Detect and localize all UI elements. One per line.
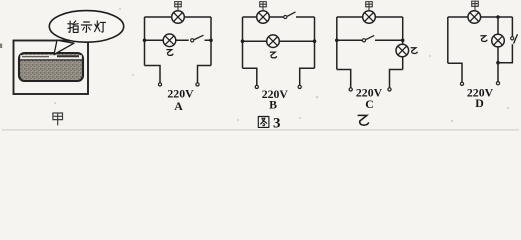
lamp 乙 (C) <box>396 44 409 57</box>
terminal D left <box>460 82 463 85</box>
bubble tail <box>54 40 74 54</box>
wire C plug lead left <box>337 70 351 88</box>
lamp 乙 (A) <box>163 34 176 47</box>
scan artifact bottom line <box>2 129 519 130</box>
svg-text:B: B <box>269 98 277 112</box>
wire D switch branch upper <box>511 17 513 36</box>
scan speckles <box>54 8 509 122</box>
wire B right vertical <box>314 17 316 68</box>
junction dot D top <box>496 15 500 19</box>
junction dot A left <box>143 39 147 43</box>
terminal B right <box>298 85 301 88</box>
label 甲 (B) <box>260 2 267 11</box>
wire A right vertical <box>210 17 212 66</box>
wire D plug lead left <box>448 63 462 82</box>
junction dot C right <box>401 39 405 43</box>
svg-text:C: C <box>365 97 374 111</box>
vent dash left <box>22 56 49 58</box>
text 示 <box>81 22 91 32</box>
label 乙 (B) <box>270 52 276 58</box>
junction dot D bottom <box>496 61 500 65</box>
label 甲 (D) <box>472 1 479 10</box>
label 乙 (C) <box>411 48 417 54</box>
lamp 甲 (A) <box>172 11 185 24</box>
wire C middle branch <box>337 39 403 41</box>
wire D lamp branch <box>497 17 499 63</box>
wire D plug lead right <box>497 63 499 82</box>
indicator light mark <box>57 55 79 57</box>
wire A left vertical <box>144 17 146 66</box>
wire A middle branch <box>145 39 212 41</box>
wire A plug lead left <box>145 66 161 83</box>
wire D left vertical <box>447 17 449 63</box>
switch S (D) <box>511 37 514 40</box>
lid band <box>20 55 82 59</box>
switch S (C) <box>362 39 365 42</box>
svg-text:D: D <box>475 96 484 110</box>
switch S (A) <box>191 39 194 42</box>
terminal C left <box>349 88 352 91</box>
label 乙 (A) <box>167 50 173 56</box>
caption 图 <box>258 117 269 128</box>
junction dot B right <box>313 39 317 43</box>
caption 乙 (bottom) <box>358 115 368 125</box>
lamp 乙 (D) <box>492 34 505 47</box>
wire C left vertical <box>336 17 338 70</box>
wire C plug lead right <box>390 70 403 88</box>
speech bubble <box>49 11 123 43</box>
wire A plug lead right <box>198 66 212 83</box>
label 甲 (A) <box>175 2 182 11</box>
svg-text:A: A <box>174 99 183 113</box>
wire B top <box>243 16 315 18</box>
wire B left vertical <box>242 17 244 68</box>
switch S (B) <box>284 15 287 18</box>
appliance case (device 甲) <box>14 41 89 95</box>
terminal C right <box>388 88 391 91</box>
terminal D right <box>496 82 499 85</box>
terminal A right <box>196 83 199 86</box>
wire C right vertical upper <box>402 17 404 44</box>
terminal A left <box>158 83 161 86</box>
label 甲 (C) <box>366 2 373 11</box>
wire B plug lead right <box>300 68 315 85</box>
lamp 甲 (C) <box>363 11 376 24</box>
lamp 甲 (D) <box>468 11 481 24</box>
wire C top <box>337 16 403 18</box>
junction dot B left <box>241 39 245 43</box>
wire D top <box>448 16 513 18</box>
label 乙 (D) <box>481 36 487 42</box>
lid seam line <box>20 59 82 61</box>
text 指 <box>68 21 79 33</box>
wire C right vertical lower <box>402 57 404 70</box>
lamp 乙 (B) <box>267 35 280 48</box>
heater bar body <box>19 53 83 81</box>
scan artifact left edge mark <box>0 44 2 49</box>
label 甲 (device) <box>53 113 63 125</box>
junction dot C left <box>335 39 339 43</box>
lamp 甲 (B) <box>257 11 270 24</box>
terminal B left <box>255 85 258 88</box>
wire A top <box>145 16 212 18</box>
text 灯 <box>95 21 106 32</box>
wire B middle branch <box>243 40 315 42</box>
junction dot A right <box>209 39 213 43</box>
wire D switch branch lower <box>498 44 512 63</box>
svg-text:3: 3 <box>273 116 281 132</box>
wire B plug lead left <box>243 68 257 85</box>
